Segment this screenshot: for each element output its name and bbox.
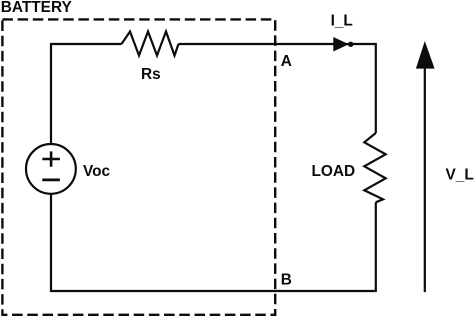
resistor LOAD xyxy=(364,133,385,202)
wire left branch top (Voc to top corner) xyxy=(50,44,52,144)
svg-text:BATTERY: BATTERY xyxy=(1,0,73,16)
V_L arrow head xyxy=(417,43,434,69)
svg-text:Rs: Rs xyxy=(141,66,161,83)
svg-text:V_L: V_L xyxy=(446,166,474,183)
minus terminal xyxy=(42,178,60,181)
junction dot xyxy=(348,42,353,47)
current arrow I_L xyxy=(334,38,348,51)
battery dashed enclosure xyxy=(2,19,275,314)
wire bottom return xyxy=(51,290,375,292)
voltage source Voc xyxy=(26,144,76,194)
wire left branch bottom (Voc to bottom corner) xyxy=(50,194,52,292)
svg-text:B: B xyxy=(281,272,292,289)
svg-text:I_L: I_L xyxy=(331,13,353,30)
plus terminal xyxy=(42,151,60,166)
V_L arrow shaft xyxy=(424,62,426,292)
resistor Rs xyxy=(122,32,179,56)
wire top from Rs to load branch corner xyxy=(179,43,376,45)
wire right branch top (corner down to LOAD) xyxy=(375,43,377,133)
svg-text:Voc: Voc xyxy=(83,163,111,180)
svg-text:LOAD: LOAD xyxy=(312,163,356,180)
wire top from corner to Rs xyxy=(50,43,122,45)
wire right branch bottom (LOAD to bottom corner) xyxy=(375,202,377,292)
svg-text:A: A xyxy=(281,53,292,70)
